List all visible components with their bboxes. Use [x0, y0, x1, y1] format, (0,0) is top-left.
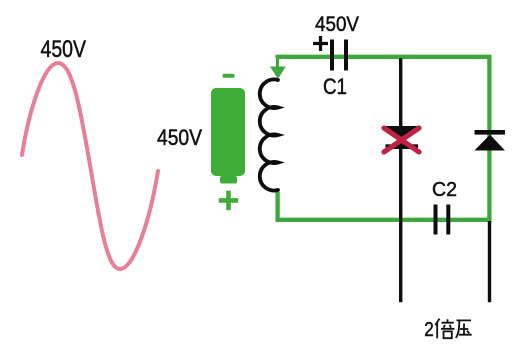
battery BT1	[211, 74, 245, 210]
black lower right leg	[488, 221, 491, 302]
label 2x voltage doubler	[424, 319, 471, 341]
black branch line D1 leg	[399, 58, 402, 302]
current arrow	[270, 57, 286, 80]
inductor L1	[260, 79, 278, 190]
wire top	[278, 57, 490, 220]
diode D2	[475, 130, 506, 151]
diode D1 crossed out	[386, 126, 419, 149]
svg-text:450V: 450V	[41, 36, 87, 63]
svg-text:2: 2	[424, 319, 434, 341]
svg-text:450V: 450V	[315, 13, 359, 36]
svg-text:C1: C1	[323, 74, 347, 99]
svg-text:450V: 450V	[157, 125, 202, 150]
polarity plus C1	[313, 36, 328, 51]
capacitor C2	[436, 205, 449, 235]
red X mark	[384, 128, 419, 152]
sine wave AC source	[22, 63, 158, 269]
svg-text:C2: C2	[432, 179, 457, 201]
hanzi bei	[435, 319, 454, 339]
capacitor C1	[332, 40, 346, 71]
hanzi ya	[456, 320, 472, 338]
